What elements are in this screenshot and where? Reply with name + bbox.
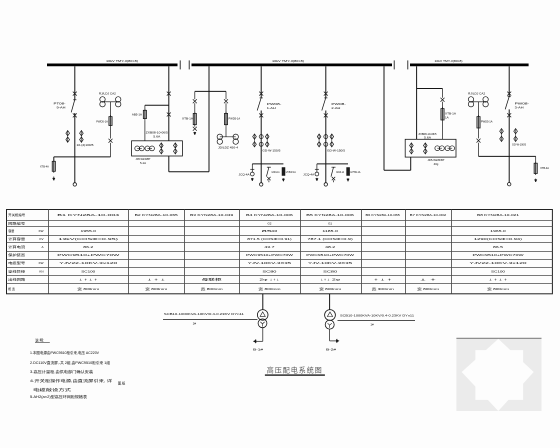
svg-text:B8 KYN28A-10-021: B8 KYN28A-10-021 bbox=[477, 213, 520, 217]
svg-text:KW: KW bbox=[39, 229, 44, 233]
notes line 6 bbox=[30, 394, 88, 399]
label T2 number 1# bbox=[370, 323, 374, 327]
label CT ratio B5 bbox=[327, 149, 345, 153]
earth arrow below FU1 bbox=[53, 177, 55, 181]
fuse FU4 box U2 bbox=[441, 89, 445, 140]
label XTB-4A right bbox=[540, 166, 549, 170]
svg-text:B3 KYN28A-10-049: B3 KYN28A-10-049 bbox=[190, 213, 234, 217]
svg-text:4.开关柜操作电源,由直流屏引来, 详: 4.开关柜操作电源,由直流屏引来, 详 bbox=[30, 378, 113, 383]
disconnector lower contact B8 bbox=[507, 113, 511, 117]
bus label 10kV TMY-3(80x8) segment B bbox=[272, 59, 304, 63]
svg-text:XTB-4A: XTB-4A bbox=[540, 166, 549, 170]
metering CT diamonds box U2 bbox=[410, 143, 428, 154]
cable terminal node feeder B1 bbox=[73, 183, 76, 186]
svg-text:PW08-: PW08- bbox=[267, 102, 282, 106]
leader line T2 bbox=[338, 319, 416, 321]
fuse branch PWD5-1A right bbox=[224, 91, 228, 136]
transformer T1 2# SCB10-1000KVA bbox=[257, 310, 268, 328]
notes line 4 bbox=[30, 378, 126, 385]
watermark logo square bbox=[456, 338, 541, 411]
svg-text:PWD5-1A: PWD5-1A bbox=[481, 120, 493, 124]
svg-text:PWD5-1A: PWD5-1A bbox=[229, 116, 241, 120]
drawing title bbox=[265, 366, 325, 376]
svg-text:宽 800mm: 宽 800mm bbox=[201, 286, 224, 291]
current transformer CT1b bbox=[80, 130, 84, 142]
label PW08 breaker B5 bbox=[331, 102, 346, 110]
svg-text:GN19-1A: GN19-1A bbox=[272, 170, 280, 174]
wire transformer T2 drop bbox=[329, 294, 331, 310]
bus gap tick marks bbox=[180, 60, 408, 69]
svg-text:计算电流: 计算电流 bbox=[8, 244, 25, 249]
svg-text:1#: 1# bbox=[370, 323, 374, 327]
svg-text:↓↑↓↑: ↓↑↓↑ bbox=[78, 278, 100, 282]
svg-text:电缆敲设方式: 电缆敲设方式 bbox=[33, 387, 72, 392]
earthing switch B4 bbox=[266, 167, 271, 182]
wire bus B right riser loop bbox=[384, 66, 411, 170]
voltage transformer TV1a bbox=[100, 97, 105, 107]
disconnect contact below FU2 bbox=[109, 127, 113, 157]
label RJ/LDJ CA2 bus C bbox=[468, 92, 485, 96]
svg-text:出线回路: 出线回路 bbox=[8, 277, 25, 282]
svg-text:B5 KYN28A-10-006: B5 KYN28A-10-006 bbox=[306, 213, 354, 217]
svg-text:PWD5-1A: PWD5-1A bbox=[96, 120, 108, 124]
svg-text:说 明:: 说 明: bbox=[35, 337, 44, 342]
svg-text:GD-W-100/5: GD-W-100/5 bbox=[512, 143, 526, 147]
label RJ/LDJ CA2 bbox=[99, 92, 116, 96]
voltage transformer TV2 pair bbox=[217, 134, 238, 144]
svg-text:↑↓↑: ↑↓↑ bbox=[373, 278, 395, 282]
svg-text:1.本图电源由PWC9510柜引来,电压 AC220V: 1.本图电源由PWC9510柜引来,电压 AC220V bbox=[30, 350, 100, 355]
svg-text:B-1#: B-1# bbox=[253, 347, 264, 351]
circuit breaker blade B4 bbox=[257, 98, 263, 111]
svg-text:回路编号: 回路编号 bbox=[8, 220, 25, 225]
svg-text:计算容量: 计算容量 bbox=[8, 236, 25, 241]
svg-text:穿线管径: 穿线管径 bbox=[8, 268, 25, 273]
svg-text:ZXB08-10-06/5: ZXB08-10-06/5 bbox=[146, 130, 169, 134]
svg-text:KV: KV bbox=[39, 237, 43, 241]
label arrester HY5W B4 bbox=[286, 170, 296, 174]
wire TV3 link bbox=[471, 102, 486, 117]
svg-text:850: 850 bbox=[262, 229, 278, 233]
svg-text:A: A bbox=[41, 245, 43, 249]
fuse FU1 XRNP bbox=[52, 157, 55, 173]
metering winding circles box U2 bbox=[435, 146, 455, 151]
svg-text:宽 300mm: 宽 300mm bbox=[372, 286, 395, 291]
bus label 10kV TMY-3(80x8) segment A bbox=[106, 59, 138, 63]
wire PT split header bbox=[195, 90, 226, 92]
svg-text:SC100: SC100 bbox=[81, 269, 95, 273]
fuse branch XTB-1A left bbox=[193, 91, 197, 134]
label PWD5-1A bbox=[96, 120, 108, 124]
label JD5 below box U2 bbox=[428, 158, 445, 166]
voltage transformer TV3b bbox=[483, 97, 488, 107]
disconnect contact below FU5 bbox=[477, 130, 481, 157]
svg-text:5.6A: 5.6A bbox=[153, 134, 160, 138]
label PW08 breaker B8 bbox=[515, 101, 530, 109]
label earthing switch B4 bbox=[272, 170, 280, 174]
bus W2 10kV segment B bbox=[192, 64, 393, 67]
disconnector lower contact B5 bbox=[324, 113, 328, 117]
svg-text:13kV(COSΦ=0.95): 13kV(COSΦ=0.95) bbox=[58, 237, 118, 241]
fuse FU5 PWD5-1A bus C bbox=[477, 115, 480, 129]
wire TV1 link bbox=[103, 102, 119, 117]
label CT ratio B4 bbox=[262, 149, 280, 153]
label XTB-1A box U2 bbox=[445, 111, 456, 119]
svg-text:40g: 40g bbox=[434, 162, 439, 166]
notes line 5 bbox=[33, 387, 72, 392]
cable terminal node B8 bbox=[508, 183, 511, 186]
svg-text:SCB10-1000KVA-10KV/0.4-0.23KV: SCB10-1000KVA-10KV/0.4-0.23KV DYn11 bbox=[164, 312, 244, 316]
svg-text:母联柜: 母联柜 bbox=[202, 277, 222, 282]
label T2 outgoing B-2# bbox=[326, 347, 337, 351]
wire feeder B8 main bbox=[508, 66, 510, 182]
wire earthing group header B4 bbox=[252, 163, 283, 165]
current transformer CT1a bbox=[66, 130, 70, 142]
svg-text:3-AH: 3-AH bbox=[515, 105, 524, 109]
svg-text:高压配电系统图: 高压配电系统图 bbox=[267, 366, 323, 375]
svg-text:43.7: 43.7 bbox=[264, 245, 275, 249]
notes line 2 bbox=[30, 360, 111, 365]
cable terminal node B4 bbox=[260, 183, 263, 186]
voltage transformer TV1b bbox=[116, 97, 121, 107]
svg-text:YJV22-10KV-3x120: YJV22-10KV-3x120 bbox=[59, 261, 118, 265]
svg-text:1185.0: 1185.0 bbox=[322, 229, 338, 233]
svg-text:48.2: 48.2 bbox=[325, 245, 336, 249]
svg-text:RJ/LDJ CA2: RJ/LDJ CA2 bbox=[468, 92, 485, 96]
label AB5-1A bbox=[132, 112, 142, 116]
svg-text:SC80: SC80 bbox=[262, 269, 277, 273]
surge arrester B4 bbox=[282, 168, 285, 182]
wire metering box outlet to bus B riser bbox=[169, 156, 209, 172]
svg-text:开关柜编号: 开关柜编号 bbox=[8, 212, 25, 217]
svg-text:2.DC110V直流屏,-共 2组,由PWC9510柜引来: 2.DC110V直流屏,-共 2组,由PWC9510柜引来 1组 bbox=[30, 360, 111, 365]
disconnector contacts on metering riser bbox=[167, 92, 171, 117]
svg-text:XTB-1A: XTB-1A bbox=[182, 116, 193, 120]
svg-text:柜 宽: 柜 宽 bbox=[8, 286, 15, 291]
disconnector upper contact B4 bbox=[259, 92, 263, 96]
svg-text:↓↑↓: ↓↑↓ bbox=[146, 278, 168, 282]
circuit breaker blade B5 bbox=[322, 98, 328, 111]
label XTB-1A bbox=[182, 116, 193, 120]
svg-text:5.6A: 5.6A bbox=[424, 135, 431, 139]
svg-text:KN: KN bbox=[39, 269, 43, 273]
label PW08 breaker B4 bbox=[267, 102, 282, 110]
metering CT diamonds box U1 bbox=[160, 143, 178, 154]
svg-text:5-1A: 5-1A bbox=[140, 161, 146, 165]
label XTB-4A bbox=[40, 165, 49, 169]
svg-text:YJV-10KV-3X35: YJV-10KV-3X35 bbox=[308, 261, 353, 265]
svg-text:GD-W-150/5: GD-W-150/5 bbox=[262, 149, 280, 153]
svg-text:PWC9510+PWC70W: PWC9510+PWC70W bbox=[57, 253, 119, 257]
label T1 number 2# bbox=[193, 321, 197, 325]
svg-text:GD-W-150/5: GD-W-150/5 bbox=[327, 149, 345, 153]
svg-text:G2: G2 bbox=[267, 221, 271, 225]
label PT08 breaker B1 bbox=[54, 102, 66, 110]
current transformers B8 bbox=[500, 129, 518, 142]
current transformers B4 bbox=[253, 134, 269, 147]
svg-text:PWC9510+PWC70W: PWC9510+PWC70W bbox=[473, 253, 524, 257]
svg-text:787.1 (COSΦ=0.9): 787.1 (COSΦ=0.9) bbox=[307, 237, 352, 241]
svg-text:1-AH: 1-AH bbox=[267, 106, 276, 110]
label JCQ B4 bbox=[239, 173, 250, 177]
label PWD5-1A right branch bbox=[229, 116, 241, 120]
surge counter JCQ B5 bbox=[315, 164, 319, 181]
notes heading bbox=[35, 337, 50, 342]
svg-text:宽 800mm: 宽 800mm bbox=[487, 286, 510, 291]
bus W1 10kV segment A bbox=[47, 64, 178, 67]
svg-text:871.5 (COSΦ=0.91): 871.5 (COSΦ=0.91) bbox=[247, 237, 291, 241]
svg-text:86.2: 86.2 bbox=[83, 245, 94, 249]
svg-text:2φ ↓↑↓: 2φ ↓↑↓ bbox=[259, 278, 280, 282]
disconnector QS1 upper contact bbox=[73, 92, 77, 96]
earthing switch B5 bbox=[331, 167, 336, 182]
svg-text:PWC9510+PWC70W: PWC9510+PWC70W bbox=[306, 253, 354, 257]
svg-text:AB5-1A: AB5-1A bbox=[132, 112, 142, 116]
label T1 rating bbox=[164, 312, 244, 316]
svg-text:PW08-: PW08- bbox=[331, 102, 346, 106]
svg-text:HY5W-1A: HY5W-1A bbox=[350, 170, 360, 174]
disconnector upper contact B5 bbox=[324, 92, 328, 96]
notes line 3 bbox=[30, 369, 94, 374]
wire PT branch horizontal run bbox=[54, 156, 111, 158]
wire T1 low side arrow bbox=[254, 328, 263, 344]
svg-text:宽 800mm: 宽 800mm bbox=[319, 286, 342, 291]
svg-text:宽 800mm: 宽 800mm bbox=[258, 286, 281, 291]
wire metering riser from bus C bbox=[416, 66, 418, 139]
metering cabinet box U1 bbox=[132, 141, 183, 156]
svg-text:SC80: SC80 bbox=[323, 269, 338, 273]
label ZXB08 box U2 bbox=[419, 132, 437, 139]
voltage transformer TV3a bbox=[468, 97, 473, 107]
svg-text:B7 KYN28A-10-002: B7 KYN28A-10-002 bbox=[410, 213, 447, 217]
wire T2 low side arrow bbox=[330, 329, 339, 343]
circuit breaker blade B8 bbox=[505, 97, 511, 110]
svg-text:XTB-1A: XTB-1A bbox=[445, 111, 456, 115]
svg-text:10-(2)100/5: 10-(2)100/5 bbox=[77, 143, 94, 147]
svg-text:5.AH2(a×2)型高压环网柜规格表: 5.AH2(a×2)型高压环网柜规格表 bbox=[30, 394, 88, 399]
svg-text:86.5: 86.5 bbox=[493, 245, 504, 249]
svg-text:宽 800mm: 宽 800mm bbox=[77, 286, 100, 291]
svg-text:1290(COSΦ=0.94): 1290(COSΦ=0.94) bbox=[474, 237, 522, 241]
svg-text:PW08-: PW08- bbox=[515, 101, 530, 105]
svg-text:G1: G1 bbox=[328, 221, 332, 225]
svg-text:XTB-4A: XTB-4A bbox=[40, 165, 49, 169]
svg-text:↓↑: ↓↑ bbox=[418, 278, 441, 282]
svg-text:YJV22-10KV-3x120: YJV22-10KV-3x120 bbox=[470, 261, 528, 265]
label PWD5-1A bus C bbox=[481, 120, 493, 124]
svg-text:电缆型号: 电缆型号 bbox=[8, 260, 25, 265]
svg-text:9-AH: 9-AH bbox=[57, 106, 66, 110]
svg-text:1A: 1A bbox=[445, 115, 449, 119]
svg-text:保护装置: 保护装置 bbox=[8, 252, 25, 257]
svg-text:容量: 容量 bbox=[8, 228, 14, 233]
wire bus B PT riser bbox=[208, 66, 210, 172]
svg-text:10kV TMY-3(80×8): 10kV TMY-3(80×8) bbox=[272, 59, 304, 63]
wire metering fuse branch horizontal bbox=[145, 104, 169, 106]
wire bus C bottom horizontal bbox=[479, 155, 536, 157]
label CT ratio 100/5 bbox=[77, 143, 94, 147]
wire metering riser from bus A bbox=[168, 66, 170, 141]
fuse FU2 PWD5-1A bbox=[109, 115, 112, 127]
metering cabinet box U2 bbox=[405, 139, 456, 157]
metering winding circles box U1 bbox=[135, 146, 155, 151]
svg-text:图.纸: 图.纸 bbox=[118, 381, 126, 386]
svg-text:GN19-1A: GN19-1A bbox=[336, 170, 344, 174]
svg-text:B1 KYN28A-10-004: B1 KYN28A-10-004 bbox=[57, 213, 120, 217]
label CT ratio B8 bbox=[512, 143, 526, 147]
svg-text:2-AH: 2-AH bbox=[331, 106, 340, 110]
fuse FU3 AB5-1A bbox=[143, 105, 146, 141]
svg-text:PT08-: PT08- bbox=[54, 102, 66, 106]
wire transformer T1 drop bbox=[262, 294, 264, 310]
svg-text:1965.0: 1965.0 bbox=[490, 229, 506, 233]
wire earthing group header B5 bbox=[317, 163, 348, 165]
label ZXB08-10-06/5 5.6A bbox=[146, 130, 169, 138]
fuse FU6 XTB-4A right bbox=[534, 156, 537, 182]
svg-text:YJV-10KV-3X35: YJV-10KV-3X35 bbox=[248, 261, 292, 265]
current transformers B5 bbox=[317, 134, 333, 147]
disconnector upper contact B8 bbox=[507, 92, 511, 96]
table data cells bbox=[57, 213, 527, 291]
surge arrester B5 bbox=[347, 168, 350, 182]
bus label 10kV TMY-3(80x8) segment C bbox=[435, 59, 463, 63]
svg-text:PWC9510+PWC70W: PWC9510+PWC70W bbox=[246, 253, 293, 257]
parameter table grid bbox=[7, 210, 553, 294]
wire fuse branch header box U2 bbox=[417, 88, 443, 90]
bus W3 10kV segment C bbox=[410, 64, 529, 67]
label arrester HY5W B5 bbox=[350, 170, 360, 174]
label JD/LDZ below TV2 bbox=[218, 146, 238, 150]
svg-text:B4 KYN28A-10-006: B4 KYN28A-10-006 bbox=[246, 213, 293, 217]
wire transformer feeder B5 main bbox=[325, 66, 327, 182]
svg-text:1955.0: 1955.0 bbox=[81, 229, 97, 233]
transformer T2 1# SCB10-1000KVA bbox=[325, 310, 336, 330]
surge counter JCQ B4 bbox=[250, 164, 254, 181]
svg-text:3.高压计量柜,由供电部门确认安装: 3.高压计量柜,由供电部门确认安装 bbox=[30, 369, 94, 374]
label JCQ B5 bbox=[303, 173, 314, 177]
wire transformer feeder B4 main bbox=[260, 66, 262, 182]
svg-text:2#: 2# bbox=[193, 321, 197, 325]
svg-text:JCQ-4A: JCQ-4A bbox=[239, 173, 250, 177]
svg-text:B6 KYN28A-10-065: B6 KYN28A-10-065 bbox=[366, 213, 401, 217]
svg-text:JD/LDZ 450-4: JD/LDZ 450-4 bbox=[218, 146, 238, 150]
notes line 1 bbox=[30, 350, 100, 355]
leader line T1 bbox=[163, 319, 257, 321]
svg-text:10kV TMY-3(80×8): 10kV TMY-3(80×8) bbox=[106, 59, 138, 63]
svg-text:↓↑↓↑: ↓↑↓↑ bbox=[488, 278, 510, 282]
table header labels column bbox=[8, 212, 43, 291]
svg-text:B2 KYN28A-10-065: B2 KYN28A-10-065 bbox=[135, 213, 179, 217]
label T1 outgoing B-1# bbox=[253, 347, 264, 351]
disconnector QS1 lower contact bbox=[73, 113, 77, 117]
svg-text:宽 800mm: 宽 800mm bbox=[417, 286, 440, 291]
svg-text:JCQ-4A: JCQ-4A bbox=[303, 173, 314, 177]
cable terminal node B5 bbox=[324, 183, 327, 186]
svg-text:10kV TMY-3(80×8): 10kV TMY-3(80×8) bbox=[435, 59, 463, 63]
circuit breaker QF1 blade bbox=[71, 100, 76, 113]
disconnector lower contact B4 bbox=[259, 113, 263, 117]
svg-text:SCB10-1000KVA-10KV/0.4-0.23KV: SCB10-1000KVA-10KV/0.4-0.23KV DYn11 bbox=[340, 313, 414, 317]
svg-text:宽 800mm: 宽 800mm bbox=[145, 286, 168, 291]
svg-text:RJ/LDJ CA2: RJ/LDJ CA2 bbox=[99, 92, 116, 96]
svg-text:KW: KW bbox=[39, 261, 44, 265]
svg-text:SC100: SC100 bbox=[491, 269, 505, 273]
label T2 rating bbox=[340, 313, 414, 317]
svg-text:↓↑↓ 2φ: ↓↑↓ 2φ bbox=[320, 278, 340, 282]
wire feeder B1 main bbox=[74, 66, 76, 182]
label JD5-W2/R/BT 5-1A bbox=[136, 157, 151, 165]
svg-text:HY5W-1A: HY5W-1A bbox=[286, 170, 296, 174]
label earthing switch B5 bbox=[336, 170, 344, 174]
svg-text:B-2#: B-2# bbox=[326, 347, 337, 351]
